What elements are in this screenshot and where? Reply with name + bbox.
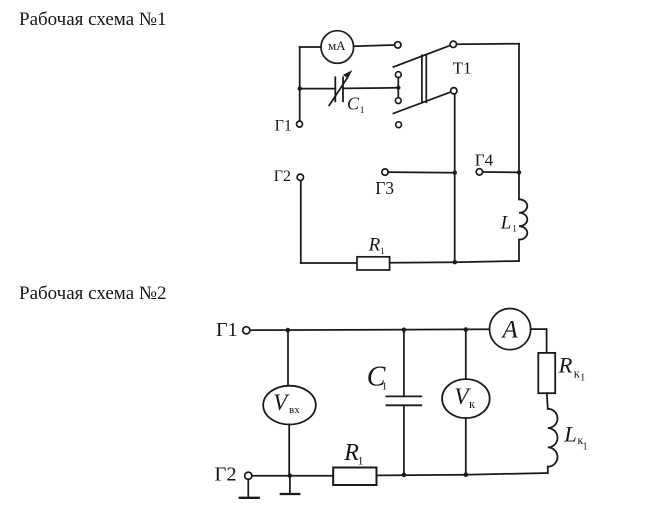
- switch contact (top, at meter wire): [395, 42, 401, 48]
- svg-text:1: 1: [512, 224, 517, 234]
- svg-text:Г2: Г2: [274, 168, 291, 185]
- inductor L1: [519, 199, 527, 239]
- node: junction bottom / C1: [402, 473, 407, 478]
- svg-text:A: A: [501, 316, 519, 343]
- node: junction Г4 / right vertical: [517, 170, 521, 174]
- switch contact (upper tap): [395, 72, 401, 78]
- svg-text:1: 1: [360, 106, 365, 116]
- svg-text:1: 1: [358, 456, 364, 468]
- svg-text:R: R: [368, 235, 381, 256]
- svg-text:Т1: Т1: [453, 59, 472, 78]
- wire: left to capacitor C1: [300, 88, 335, 90]
- wire: top-left horizontal to meter: [300, 46, 321, 48]
- wire: link between taps: [397, 78, 399, 98]
- terminal of T1 primary (top right): [450, 41, 456, 47]
- wire: right vertical down to L1: [518, 44, 520, 200]
- node: junction Г3 wire / vertical: [453, 171, 457, 175]
- svg-text:1: 1: [380, 246, 385, 256]
- svg-text:Рабочая схема №1: Рабочая схема №1: [19, 9, 167, 30]
- wire: meter right to switch contact: [354, 45, 395, 46]
- wire: Г3 to vertical: [388, 171, 455, 174]
- wire: capacitor C1 to contact column: [343, 87, 396, 90]
- node: junction on left vertical at C1 wire: [298, 86, 302, 90]
- wire: Vк bottom lead: [465, 418, 467, 475]
- svg-text:вх: вх: [289, 404, 300, 416]
- wire: bottom bus right of R1: [377, 473, 548, 475]
- wire: top horizontal bus: [250, 328, 490, 331]
- capacitor C1 (variable): [334, 77, 336, 101]
- node: junction bottom / Vк: [464, 472, 469, 477]
- wire: bottom bus left of R1: [252, 475, 333, 477]
- wire: Lк1 to bottom corner: [547, 467, 549, 473]
- wire: C1 bottom lead: [403, 405, 405, 475]
- node: tap junction: [396, 86, 400, 90]
- svg-text:R: R: [558, 352, 573, 377]
- transformer T1 secondary winding (slanted): [393, 92, 450, 113]
- terminal Г3: [382, 169, 388, 175]
- svg-text:Г2: Г2: [215, 464, 237, 486]
- svg-text:C: C: [347, 93, 360, 113]
- switch contact (bottom, unused): [396, 122, 402, 128]
- node: junction top / C1: [402, 328, 407, 333]
- node: junction top / Vвх: [286, 328, 291, 333]
- node: junction bottom / Vвх ground: [288, 473, 293, 478]
- node: junction bottom wire / vertical: [453, 260, 457, 264]
- ground (below Г2): [247, 479, 249, 497]
- svg-text:Рабочая схема №2: Рабочая схема №2: [19, 283, 167, 304]
- wire: bottom left to R1: [301, 262, 357, 264]
- svg-text:1: 1: [580, 373, 585, 384]
- resistor Rк1: [538, 353, 555, 393]
- ammeter A: [490, 309, 531, 350]
- milliammeter мА: [321, 31, 354, 64]
- resistor R1: [357, 257, 390, 270]
- wire: A to corner: [531, 328, 547, 330]
- switch contact (lower tap): [395, 98, 401, 104]
- wire: below L1 to bottom corner: [518, 240, 520, 261]
- wire: top right horizontal: [457, 43, 520, 46]
- wire: Г4 to right vertical: [483, 171, 519, 173]
- wire: Vвх bottom lead: [288, 424, 290, 475]
- resistor R1 (schematic 2): [333, 468, 376, 486]
- wire: Vк top lead: [465, 330, 467, 380]
- svg-text:Г1: Г1: [216, 319, 238, 341]
- wire: C1 top lead: [403, 330, 405, 397]
- node: junction top / Vк: [464, 327, 469, 332]
- terminal of T1 secondary (right): [451, 88, 457, 94]
- terminal Г2: [297, 174, 303, 180]
- svg-text:к: к: [469, 397, 476, 411]
- voltmeter Vк: [442, 379, 490, 418]
- svg-text:L: L: [500, 213, 512, 234]
- wire: corner down to Rк1: [546, 329, 548, 353]
- ground (below Vвх junction): [289, 476, 291, 494]
- wire: Vвх top lead: [287, 330, 289, 386]
- voltmeter Vвх: [263, 386, 316, 425]
- wire: vertical from T1 secondary down: [454, 94, 456, 262]
- transformer T1 primary winding (slanted): [393, 45, 450, 67]
- inductor Lк1: [548, 409, 558, 467]
- capacitor C1 (schematic 2): [386, 395, 421, 397]
- terminal Г1: [297, 121, 303, 127]
- wire: left vertical (top corner down to Г1): [299, 47, 301, 121]
- svg-text:Г4: Г4: [475, 150, 494, 169]
- svg-text:1: 1: [583, 442, 588, 453]
- svg-text:мА: мА: [328, 39, 346, 53]
- terminal Г4: [476, 169, 482, 175]
- svg-text:Г1: Г1: [275, 118, 292, 135]
- svg-text:Г3: Г3: [375, 178, 394, 198]
- wire: left vertical from Г2 down: [300, 181, 302, 263]
- svg-text:L: L: [563, 421, 577, 446]
- svg-text:1: 1: [382, 381, 388, 393]
- transformer T1 core: [421, 55, 423, 102]
- wire: R1 to bottom right corner: [390, 261, 519, 263]
- wire: Rк1 to Lк1: [547, 393, 548, 409]
